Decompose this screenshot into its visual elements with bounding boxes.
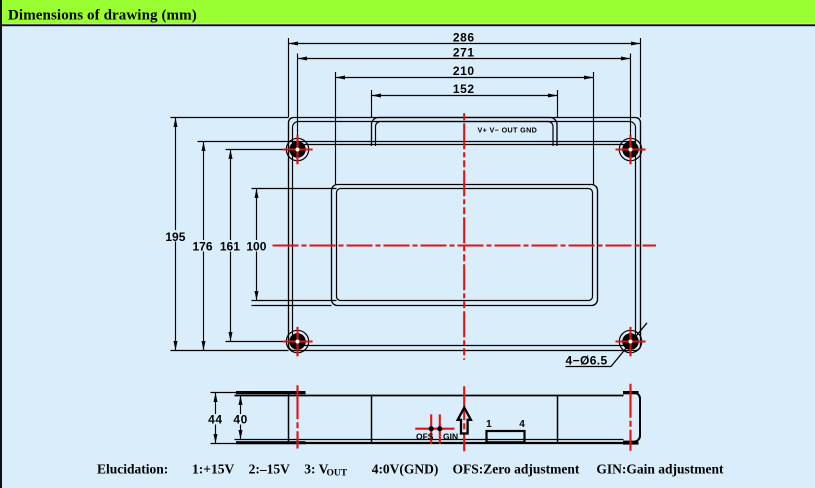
extension line 100 bottom bbox=[252, 300, 337, 302]
extension line 195 top bbox=[171, 117, 289, 119]
hole top-left bbox=[289, 141, 306, 158]
terminal box bbox=[487, 431, 525, 442]
extension line 195 bottom bbox=[171, 350, 289, 352]
svg-text:OFS:Zero adjustment: OFS:Zero adjustment bbox=[453, 462, 580, 477]
svg-text:271: 271 bbox=[453, 46, 475, 60]
extension line recess outer bottom bbox=[252, 305, 332, 307]
seam line upper bbox=[293, 141, 636, 143]
dim line 271 bbox=[298, 58, 631, 60]
extension line 271 right bbox=[630, 54, 632, 143]
extension line 152 right bbox=[557, 90, 559, 118]
svg-text:OUT: OUT bbox=[327, 469, 348, 479]
case outer rounded rect bbox=[289, 118, 641, 351]
svg-text:100: 100 bbox=[246, 240, 266, 254]
dim line 210 bbox=[336, 77, 594, 79]
svg-text:Elucidation:: Elucidation: bbox=[97, 462, 168, 477]
dim line 176 bbox=[203, 142, 205, 351]
right cap bbox=[623, 393, 640, 442]
extension line 210 right bbox=[593, 72, 595, 185]
svg-text:176: 176 bbox=[192, 240, 212, 254]
handle inner bbox=[376, 122, 554, 147]
hole cross bottom-left bbox=[283, 340, 313, 342]
vertical centerline bbox=[463, 113, 465, 359]
hole boss bottom-right bbox=[619, 330, 641, 352]
svg-text:4−Ø6.5: 4−Ø6.5 bbox=[566, 354, 608, 368]
hole boss top-right bbox=[619, 138, 641, 160]
hole boss bottom-left bbox=[286, 330, 308, 352]
extension line 161 bottom (hole center) bbox=[226, 341, 287, 343]
extension line 210 left bbox=[335, 72, 337, 185]
svg-text:286: 286 bbox=[453, 31, 475, 45]
svg-text:GIN: GIN bbox=[443, 431, 458, 441]
hole top-right bbox=[622, 141, 639, 158]
extension line 100 top bbox=[252, 188, 337, 190]
line under title bbox=[0, 24, 815, 26]
extension line 286 left bbox=[288, 38, 290, 118]
extension line 161 top (hole center) bbox=[226, 149, 283, 151]
red centerlines main view bbox=[273, 113, 657, 359]
label 4-dia6.5 leader bbox=[566, 323, 648, 367]
dim line 195 bbox=[175, 118, 177, 351]
svg-text:161: 161 bbox=[220, 240, 240, 254]
red verticals side view bbox=[298, 384, 631, 452]
svg-text:1:+15V: 1:+15V bbox=[192, 462, 234, 477]
dim line 286 bbox=[289, 43, 641, 45]
hole cross top-left bbox=[283, 148, 313, 150]
hole cross bottom-right bbox=[616, 340, 646, 342]
recess inner rect bbox=[337, 189, 593, 301]
ext line 44 bottom bbox=[211, 443, 238, 445]
arrowheads dims bbox=[174, 42, 641, 351]
horizontal centerline bbox=[273, 244, 657, 246]
svg-text:44: 44 bbox=[208, 412, 223, 426]
cross dot OFS bbox=[429, 426, 434, 431]
svg-text:Dimensions of drawing (mm): Dimensions of drawing (mm) bbox=[8, 8, 197, 24]
dim line 152 bbox=[372, 95, 558, 97]
green title bar bbox=[0, 0, 815, 24]
dim line 40 bbox=[240, 396, 242, 440]
case inner rounded rect bbox=[293, 122, 636, 346]
elucidation bbox=[97, 462, 724, 479]
bottom outer line bbox=[236, 442, 624, 444]
extension line 176 top bbox=[198, 141, 293, 143]
cross dot GIN bbox=[437, 426, 442, 431]
inner bottom line (40) bbox=[235, 439, 624, 441]
black up arrow (outline) bbox=[458, 408, 471, 434]
side verticals bbox=[288, 391, 290, 444]
hole bottom-right bbox=[622, 333, 639, 350]
inner top line (40) bbox=[235, 395, 624, 397]
svg-text:152: 152 bbox=[453, 82, 475, 96]
OFS/GIN cross lines bbox=[415, 428, 454, 430]
hole boss top-left bbox=[286, 138, 308, 160]
hole cross top-right bbox=[616, 148, 646, 150]
text 44 bbox=[207, 414, 225, 425]
svg-text:2:–15V: 2:–15V bbox=[249, 462, 290, 477]
extension line 286 right bbox=[640, 38, 642, 118]
svg-text:210: 210 bbox=[453, 64, 475, 78]
left flange bars bbox=[236, 391, 306, 394]
ext line 44 top bbox=[211, 392, 238, 394]
seam line lower bbox=[293, 144, 636, 146]
extension line 271 left bbox=[297, 54, 299, 143]
extension line 152 left bbox=[371, 90, 373, 118]
dim texts top bbox=[453, 31, 475, 96]
text 40 bbox=[232, 414, 250, 425]
arrows 44/40 bbox=[214, 393, 243, 444]
svg-text:GIN:Gain adjustment: GIN:Gain adjustment bbox=[596, 462, 724, 477]
svg-text:4: 4 bbox=[519, 419, 525, 430]
svg-text:OFS: OFS bbox=[416, 431, 434, 441]
svg-text:40: 40 bbox=[233, 412, 248, 426]
dim line 44 bbox=[215, 393, 217, 444]
handle outer bbox=[372, 118, 558, 147]
dim line 100 bbox=[256, 189, 258, 301]
left border bbox=[0, 0, 2, 488]
svg-text:1: 1 bbox=[486, 419, 492, 430]
white hole centers bbox=[296, 148, 633, 344]
svg-text:3: V: 3: V bbox=[304, 462, 328, 477]
dim texts left bbox=[164, 230, 268, 254]
dim line 161 bbox=[230, 150, 232, 342]
recess outer rect bbox=[332, 185, 598, 306]
hole bottom-left bbox=[289, 333, 306, 350]
svg-text:V+ V− OUT GND: V+ V− OUT GND bbox=[478, 125, 538, 134]
svg-text:4:0V(GND): 4:0V(GND) bbox=[372, 462, 439, 477]
svg-text:195: 195 bbox=[165, 230, 185, 244]
